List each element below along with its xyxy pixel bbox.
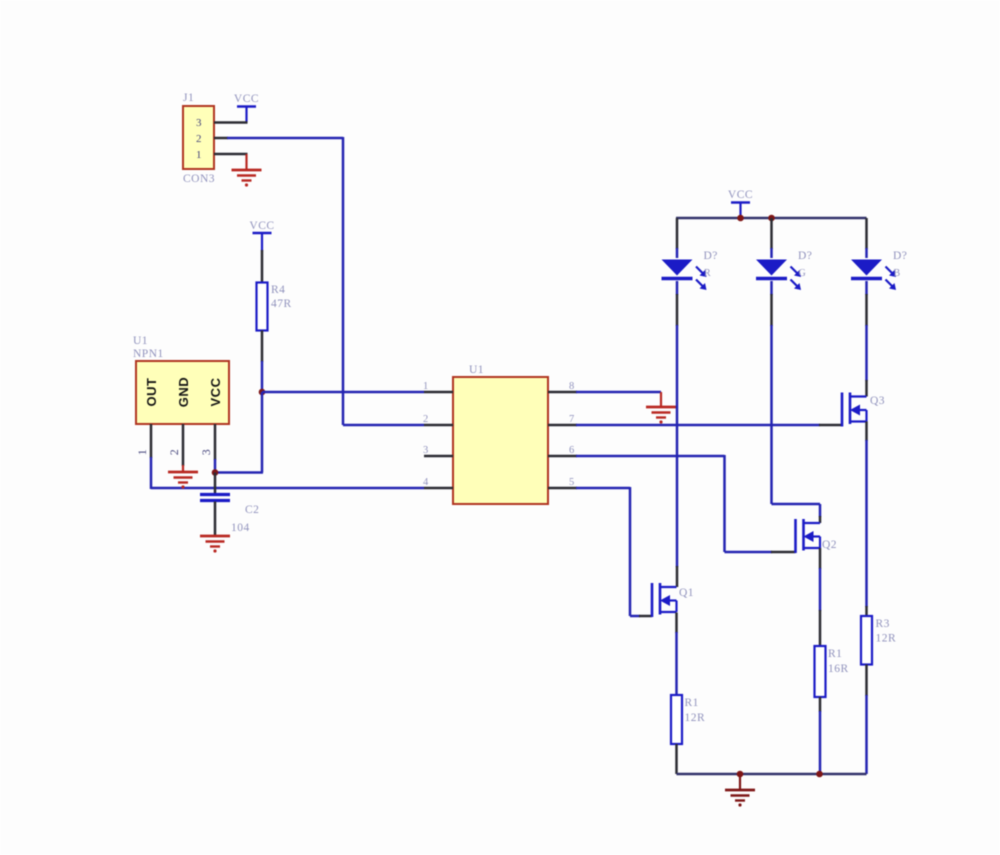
wire right column LED to Q3 drain stub bbox=[865, 325, 868, 381]
svg-text:D?: D? bbox=[893, 250, 907, 262]
label LED color letter R bbox=[704, 268, 711, 279]
NPN1 pin name GND bbox=[176, 377, 191, 407]
svg-text:1: 1 bbox=[196, 149, 202, 161]
svg-text:5: 5 bbox=[569, 477, 575, 488]
label U1 designator (sensor) bbox=[133, 335, 148, 347]
wire U1 pin2 from J1 bbox=[343, 424, 424, 427]
wire R3 lower stub bbox=[865, 665, 868, 697]
resistor R4 bbox=[257, 283, 268, 331]
svg-text:3: 3 bbox=[196, 117, 202, 129]
power VCC at LED rail bbox=[728, 189, 753, 218]
label R4 value 47R bbox=[271, 298, 292, 310]
U1 pin 8 number bbox=[569, 381, 575, 392]
svg-text:2: 2 bbox=[196, 133, 202, 145]
wire U1 pin5 to Q1 gate bbox=[630, 615, 640, 618]
transistor Q2 bbox=[796, 519, 821, 553]
NPN1 pin name VCC bbox=[208, 377, 223, 406]
wire Q2 drain stub bbox=[819, 516, 822, 523]
connector J1 bbox=[183, 106, 214, 169]
svg-text:12R: 12R bbox=[685, 712, 706, 724]
J1 pin 1 number bbox=[196, 149, 202, 161]
wire R3 to bottom rail bbox=[865, 695, 868, 774]
svg-text:4: 4 bbox=[423, 477, 429, 488]
svg-text:12R: 12R bbox=[876, 633, 897, 645]
svg-text:8: 8 bbox=[569, 381, 575, 392]
label CON3 value bbox=[183, 173, 215, 185]
svg-text:7: 7 bbox=[569, 414, 575, 425]
label J1 designator bbox=[183, 92, 194, 104]
wire middle column LED to corner bbox=[770, 325, 773, 504]
wire U1 pin8 to ground bbox=[576, 391, 661, 394]
svg-text:R1: R1 bbox=[685, 697, 699, 709]
label LED color letter B bbox=[894, 268, 901, 279]
wire NPN1 pin2 stub bbox=[182, 424, 185, 466]
wire below D? blue LED stub bbox=[865, 294, 868, 326]
svg-text:2: 2 bbox=[167, 449, 181, 456]
wire NPN1 pin1 stub bbox=[150, 424, 153, 458]
junction node R4/U1pin1 bbox=[259, 389, 266, 396]
wire left column LED to Q1 drain bbox=[676, 325, 679, 567]
U1 pin 2 number bbox=[423, 414, 429, 425]
wire rail to D? red LED stub bbox=[676, 218, 679, 249]
U1 pin 5 number bbox=[569, 477, 575, 488]
wire J1 pin3 to VCC bbox=[214, 121, 248, 124]
svg-text:R: R bbox=[704, 268, 711, 279]
label Q2 designator bbox=[822, 539, 837, 551]
svg-text:6: 6 bbox=[569, 445, 575, 456]
svg-text:Q3: Q3 bbox=[870, 395, 885, 407]
ground at U1 pin8 bbox=[646, 392, 676, 424]
NPN1 pin 3 number bbox=[199, 449, 213, 456]
label R3 value 12R bbox=[876, 633, 897, 645]
wire below D? blue LED bbox=[865, 281, 868, 295]
wire NPN1 pin3 stub bbox=[214, 424, 217, 460]
svg-text:J1: J1 bbox=[183, 92, 194, 104]
wire rail to D? blue LED stub bbox=[865, 218, 868, 249]
wire NPN1 pin3 to node bbox=[214, 459, 217, 473]
svg-text:R3: R3 bbox=[876, 618, 890, 630]
svg-text:GND: GND bbox=[176, 377, 191, 407]
svg-text:Q1: Q1 bbox=[679, 587, 694, 599]
svg-text:B: B bbox=[894, 268, 901, 279]
U1 pin 2 stub bbox=[424, 424, 453, 427]
resistor R1 (16R) bbox=[815, 646, 826, 697]
wire U1 pin5 horizontal bbox=[576, 487, 630, 490]
wire U1 pin7 Q3 gate stub bbox=[819, 424, 842, 427]
wire bottom rail bbox=[677, 773, 867, 775]
svg-text:R1: R1 bbox=[828, 648, 842, 660]
ground at NPN1 GND bbox=[168, 465, 198, 489]
capacitor C2 bbox=[200, 495, 230, 501]
wire R1-12R lower stub bbox=[675, 744, 678, 774]
U1 pin 7 stub bbox=[548, 424, 577, 427]
label LED color letter G bbox=[799, 268, 807, 279]
wire Q1 gate stub bbox=[639, 615, 652, 618]
svg-text:1: 1 bbox=[135, 449, 149, 456]
label R3 designator bbox=[876, 618, 890, 630]
J1 pin 3 number bbox=[196, 117, 202, 129]
wire R1-16R to bottom rail bbox=[819, 711, 822, 774]
wire VCC to R4 bbox=[261, 250, 264, 283]
wire to D? green LED bbox=[770, 248, 773, 258]
wire Q2 source to R1 bbox=[819, 568, 822, 611]
label D? designator bbox=[704, 250, 718, 262]
LED D? green LED bbox=[756, 260, 801, 291]
wire to D? red LED bbox=[676, 248, 679, 258]
wire U1 pin6 to Q2 gate bbox=[725, 551, 773, 554]
wire node to U1 pin1 bbox=[262, 391, 424, 394]
svg-text:C2: C2 bbox=[245, 504, 259, 516]
wire J1 pin2 stub bbox=[214, 137, 228, 140]
label C2 value 104 bbox=[231, 522, 250, 534]
wire R4 to node bbox=[261, 361, 264, 392]
junction VCC stem bbox=[737, 215, 744, 222]
label D? designator bbox=[893, 250, 907, 262]
U1 pin 8 stub bbox=[548, 391, 577, 394]
label Q3 designator bbox=[870, 395, 885, 407]
U1 pin 3 number bbox=[423, 445, 429, 456]
svg-text:U1: U1 bbox=[469, 364, 484, 376]
U1 pin 7 number bbox=[569, 414, 575, 425]
junction bottom ground bbox=[737, 771, 744, 778]
svg-text:D?: D? bbox=[704, 250, 718, 262]
power VCC at R4 bbox=[249, 220, 274, 251]
wire Q1 source stub bbox=[675, 613, 678, 634]
wire R1-16R top stub bbox=[819, 610, 822, 646]
NPN1 pin name OUT bbox=[144, 378, 159, 407]
label C2 designator bbox=[245, 504, 259, 516]
U1 pin 5 stub bbox=[548, 487, 577, 490]
junction middle LED column bbox=[768, 215, 775, 222]
svg-text:3: 3 bbox=[423, 445, 429, 456]
wire Q3 source stub bbox=[865, 422, 868, 442]
svg-text:16R: 16R bbox=[828, 663, 849, 675]
svg-text:OUT: OUT bbox=[144, 378, 159, 407]
wire U1 pin6 horizontal bbox=[576, 455, 725, 458]
wire R1-16R lower stub bbox=[819, 697, 822, 712]
label D? designator bbox=[798, 250, 812, 262]
wire Q1 drain stub bbox=[676, 566, 679, 587]
wire NPN1 pin1 down bbox=[150, 457, 153, 489]
svg-text:VCC: VCC bbox=[208, 377, 223, 406]
wire middle corner horizontal bbox=[772, 503, 821, 506]
ground at C2 bbox=[200, 536, 230, 553]
wire J1 pin2 vertical bbox=[342, 137, 345, 425]
svg-text:Q2: Q2 bbox=[822, 539, 837, 551]
wire below D? red LED stub bbox=[676, 294, 679, 326]
NPN1 pin 1 number bbox=[135, 449, 149, 456]
wire NPN1 OUT to U1 pin4 bbox=[151, 487, 424, 490]
wire Q1 source to R1 bbox=[675, 632, 678, 695]
svg-text:VCC: VCC bbox=[728, 189, 753, 201]
label R1 designator (16R) bbox=[828, 648, 842, 660]
wire C2 to ground bbox=[214, 502, 217, 537]
label R1 designator (12R) bbox=[685, 697, 699, 709]
resistor R3 bbox=[861, 616, 872, 665]
ground at bottom rail bbox=[725, 774, 755, 807]
svg-text:104: 104 bbox=[231, 522, 250, 534]
transistor Q1 bbox=[652, 583, 677, 617]
svg-text:G: G bbox=[799, 268, 807, 279]
wire Q3 drain stub bbox=[865, 380, 868, 397]
wire Q2 gate stub bbox=[771, 551, 796, 554]
wire U1 pin7 to Q3 gate bbox=[576, 424, 820, 427]
U1 pin 4 stub bbox=[424, 487, 453, 490]
wire to NPN1 pin3 node bbox=[214, 471, 263, 474]
wire below D? green LED bbox=[770, 281, 773, 295]
wire U1 pin6 vertical bbox=[723, 455, 726, 552]
U1 pin 1 stub bbox=[424, 391, 453, 394]
wire rail to D? green LED stub bbox=[770, 218, 773, 249]
wire VCC rail bbox=[676, 217, 867, 219]
svg-text:U1: U1 bbox=[133, 335, 148, 347]
ground at J1 pin1 bbox=[232, 154, 262, 187]
sensor U1 NPN1 body bbox=[136, 361, 229, 424]
label R4 designator bbox=[271, 284, 285, 296]
J1 pin 2 number bbox=[196, 133, 202, 145]
wire J1 pin2 to U1 pin2 horizontal bbox=[227, 137, 343, 140]
NPN1 pin 2 number bbox=[167, 449, 181, 456]
wire to D? blue LED bbox=[865, 248, 868, 258]
wire U1 pin5 vertical bbox=[629, 487, 632, 616]
junction R1-16R column bbox=[816, 771, 823, 778]
U1 pin 6 number bbox=[569, 445, 575, 456]
junction node NPN1 VCC/C2 bbox=[212, 469, 219, 476]
U1 pin 6 stub bbox=[548, 455, 577, 458]
label Q1 designator bbox=[679, 587, 694, 599]
U1 pin 1 number bbox=[423, 381, 429, 392]
wire node to C2 bbox=[214, 473, 217, 494]
svg-text:R4: R4 bbox=[271, 284, 285, 296]
IC U1 body bbox=[453, 377, 548, 504]
wire to Q2 drain bbox=[819, 504, 822, 517]
transistor Q3 bbox=[842, 393, 867, 427]
LED D? red LED bbox=[662, 260, 707, 291]
wire R3 top stub bbox=[865, 606, 868, 616]
resistor R1 (12R) bbox=[671, 695, 682, 744]
svg-text:1: 1 bbox=[423, 381, 429, 392]
wire R4 lower stub bbox=[261, 331, 264, 363]
power VCC at J1 bbox=[234, 93, 259, 123]
U1 pin 4 number bbox=[423, 477, 429, 488]
svg-text:2: 2 bbox=[423, 414, 429, 425]
wire Q2 source stub bbox=[819, 548, 822, 569]
svg-text:D?: D? bbox=[798, 250, 812, 262]
label R1 value 16R bbox=[828, 663, 849, 675]
svg-text:VCC: VCC bbox=[249, 220, 274, 232]
U1 pin 3 stub bbox=[424, 455, 453, 458]
label R1 value 12R bbox=[685, 712, 706, 724]
wire below D? red LED bbox=[676, 281, 679, 295]
wire J1 pin1 stub bbox=[214, 153, 248, 156]
wire below D? green LED stub bbox=[770, 294, 773, 326]
svg-text:NPN1: NPN1 bbox=[133, 348, 164, 360]
wire node down to NPN1 VCC bbox=[261, 392, 264, 473]
svg-text:47R: 47R bbox=[271, 298, 292, 310]
svg-text:VCC: VCC bbox=[234, 93, 259, 105]
label NPN1 value bbox=[133, 348, 164, 360]
LED D? blue LED bbox=[851, 260, 896, 291]
svg-text:3: 3 bbox=[199, 449, 213, 456]
svg-text:CON3: CON3 bbox=[183, 173, 215, 185]
wire Q3 source to R3 bbox=[865, 440, 868, 607]
label U1 designator (IC) bbox=[469, 364, 484, 376]
